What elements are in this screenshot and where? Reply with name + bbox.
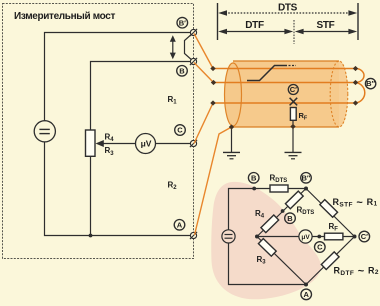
junction diamond RF ground [290,124,295,129]
ground left [223,152,240,158]
svg-text:Измерительный мост: Измерительный мост [14,11,115,22]
svg-text:RSTF ~ R1: RSTF ~ R1 [333,197,378,209]
wire fiber lower [213,102,356,104]
svg-text:DTS: DTS [278,3,298,14]
junction diamond mid-right [353,80,358,85]
battery source E1 [34,121,55,142]
junction diamond mid-left [211,80,216,85]
svg-text:C: C [317,243,323,252]
terminal B [190,58,197,65]
svg-text:R1: R1 [168,95,178,106]
wire bridge diagonal DTF [306,237,355,285]
node dot B top [252,187,256,191]
terminal A [190,232,197,239]
svg-text:DTF: DTF [245,20,264,31]
svg-text:A: A [303,290,309,299]
splice symbol dashes [289,65,297,67]
svg-text:B′: B′ [179,18,186,27]
dimension tick left [217,3,219,40]
wire bridge left loop [229,189,307,285]
resistor RDTS diagonal [285,191,303,209]
svg-text:RDTS: RDTS [270,174,288,185]
resistor RSTF diagonal [320,200,338,218]
svg-text:B: B [251,173,257,182]
wire fan A to fiber ground [195,127,232,235]
svg-text:μV: μV [141,139,152,149]
adjust arrow up-down [170,35,176,59]
wire fiber top [213,68,356,70]
fiber spool right cap [330,61,348,127]
galvanometer uV [136,134,156,154]
node A label [174,220,185,231]
svg-text:B: B [287,214,293,223]
wire RF to ground [292,121,294,152]
node C label [175,125,186,136]
node B bridge label [248,173,259,184]
wire fan B to fiber [194,63,214,83]
dimension line DTS [218,10,357,16]
svg-text:C: C [177,126,183,135]
node C bridge label [315,242,326,253]
dimension line DTF [218,29,293,35]
splice symbol in fiber [247,66,287,81]
wire bridge diagonal R3 [257,237,306,285]
svg-text:RF: RF [329,222,339,233]
fiber spool top edge [233,60,339,62]
slider contact between B' and B [185,33,194,62]
bridge box (Измерительный мост) [3,4,194,259]
svg-text:μV: μV [301,234,310,241]
node junction dot bottom [89,234,93,238]
node C' bridge label [359,231,370,242]
wire fan B' to fiber [194,34,213,69]
wire branch B to R3/R4 column [91,62,194,236]
resistor RF in fiber [290,108,296,121]
svg-text:B″: B″ [366,79,375,88]
node B label [177,66,188,77]
battery source bridge [222,230,235,243]
svg-text:C′: C′ [361,232,368,241]
node dot right vertex [353,235,357,239]
resistor R4 diagonal [261,215,279,233]
wire bridge diagonal STF [306,189,355,237]
resistor RDTS top [270,185,288,192]
potentiometer R3/R4 body [86,130,96,156]
dimension tick right [357,3,359,40]
svg-text:B: B [179,66,185,75]
resistor R3 diagonal [258,239,276,257]
wiper arrow to potentiometer [96,140,136,147]
node B'' bridge label [301,173,312,184]
fiber spool left cap [225,63,242,126]
svg-text:RDTF ~ R2: RDTF ~ R2 [334,265,379,277]
node B mid bridge label [285,213,296,224]
svg-text:B″: B″ [301,173,310,182]
dimension line STF [295,29,357,35]
svg-text:R2: R2 [168,180,178,191]
fiber spool bottom edge [233,126,339,128]
node B' label [177,17,188,28]
node dot B'' vertex [304,187,308,191]
junction diamond top-right [353,66,358,71]
svg-text:A: A [177,220,183,229]
svg-text:RDTS: RDTS [297,206,315,217]
wire left ground drop [231,127,233,152]
junction diamond top-left [210,66,215,71]
svg-text:R3: R3 [105,146,115,157]
wire fiber middle [214,82,356,84]
wire bridge diagonal B''-B-left [257,189,306,237]
ground right [285,152,302,158]
equivalent bridge highlight blob [211,182,321,299]
fiber spool body [233,61,339,127]
svg-text:R4: R4 [105,132,115,143]
node dot A vertex [304,283,308,287]
junction diamond low-left [210,100,215,105]
wire loop right upper [356,69,365,83]
terminal B' [190,29,197,36]
svg-text:STF: STF [317,20,335,31]
wire fan C to fiber [194,103,213,144]
junction diamond spool bottom-left [229,124,234,129]
resistor RDTF diagonal [321,252,339,270]
node dot B mid [281,209,285,213]
node A bridge label [301,289,312,300]
svg-text:C′: C′ [290,85,297,94]
resistor RF bridge [325,233,343,240]
terminal C [190,140,197,147]
junction X mark [290,98,298,106]
wire main loop B'-left-bottom-A [45,33,194,236]
junction diamond low-right [353,100,358,105]
node dot C [317,235,321,239]
node B'' label [365,78,375,88]
dimension divider middle [293,20,295,44]
wire uV to terminal C [156,143,191,145]
wire bridge middle row [257,236,355,238]
wire loop right lower [356,83,365,104]
fiber spool hidden edge [339,61,348,127]
node dot left vertex [255,235,259,239]
node C' label in fiber [288,85,298,95]
galvanometer uV bridge [299,230,312,243]
